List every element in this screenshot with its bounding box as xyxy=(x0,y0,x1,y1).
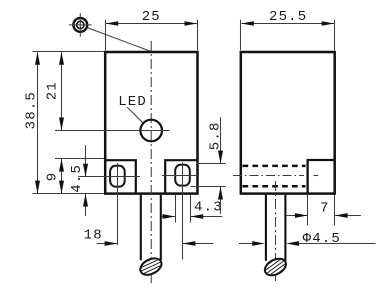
hidden slot line bottom (dashed) xyxy=(243,185,306,188)
sensor body outline (side view) xyxy=(241,52,335,194)
dim dia 4.5 (cable diameter) xyxy=(239,231,376,247)
mounting lug box right xyxy=(165,160,197,193)
dim 5.8 (slot height) xyxy=(191,117,226,214)
svg-text:18: 18 xyxy=(84,227,103,243)
svg-text:21: 21 xyxy=(45,81,61,100)
svg-text:4.5: 4.5 xyxy=(69,164,85,193)
svg-text:5.8: 5.8 xyxy=(207,121,223,150)
dim 25 (top width) xyxy=(105,9,197,50)
svg-text:25.5: 25.5 xyxy=(269,9,307,25)
dim 9 (lug height) xyxy=(45,159,104,194)
bottom-right step xyxy=(308,160,335,194)
sensor body outline (front view) xyxy=(105,52,197,194)
vertical centerline (side view) xyxy=(275,181,277,284)
mounting lug box left xyxy=(105,160,136,193)
dim 7 (step width) xyxy=(286,195,361,226)
svg-text:Φ4.5: Φ4.5 xyxy=(303,231,341,247)
vertical centerline (front view) xyxy=(150,41,152,283)
svg-text:4.3: 4.3 xyxy=(194,199,223,215)
sensing face mark: crosshair circle xyxy=(69,13,92,36)
svg-text:7: 7 xyxy=(320,200,330,216)
leader from crosshair mark to body top centre xyxy=(88,28,151,51)
dim 18 (slot centres distance) xyxy=(84,227,214,246)
slot centre cross line left (horizontal) xyxy=(78,176,140,178)
cable end ellipse (side view, hatched) xyxy=(258,253,292,281)
svg-text:LED: LED xyxy=(118,94,147,110)
horizontal centerline (side view) xyxy=(233,175,304,177)
slot hole left xyxy=(110,166,125,187)
slot centre extension lines (vertical) xyxy=(118,163,183,260)
hidden slot line top (dashed) xyxy=(243,165,306,168)
dim 38.5 (overall height) xyxy=(24,52,104,194)
cable stem (front view) xyxy=(141,195,161,260)
LED window circle xyxy=(140,120,162,142)
dim 4.3 (slot width) xyxy=(162,195,223,223)
cable end ellipse (front view, hatched) xyxy=(135,254,167,280)
dim 25.5 (side width) xyxy=(241,9,335,50)
slot centre cross line right (horizontal) xyxy=(162,175,197,177)
dim 21 (top to LED centre) xyxy=(45,52,170,131)
cable stem (side view) xyxy=(266,195,286,261)
svg-text:9: 9 xyxy=(45,172,61,182)
svg-text:38.5: 38.5 xyxy=(24,91,40,129)
dim 4.5 (slot centre to bottom) xyxy=(69,145,88,216)
slot hole right xyxy=(175,165,190,186)
LED leader line xyxy=(127,107,143,123)
svg-text:25: 25 xyxy=(142,9,161,25)
